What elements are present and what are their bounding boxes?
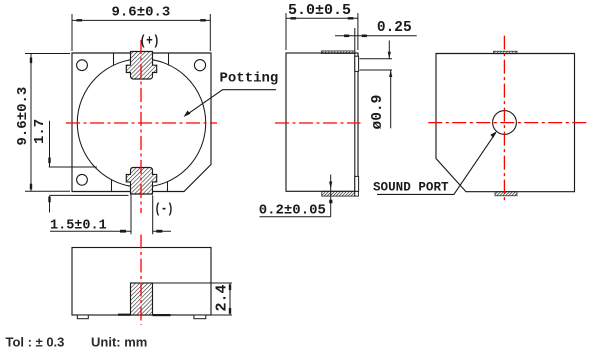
side view: top castellation tab: [355, 56, 359, 71]
bottom view: left terminal edge: [118, 314, 131, 316]
side view: plate line: [354, 53, 356, 191]
dimension 1.5: [50, 195, 171, 235]
rear view: red horizontal centerline: [428, 122, 587, 124]
svg-text:1.5±0.1: 1.5±0.1: [50, 219, 107, 234]
side view: bottom castellation tab: [355, 176, 359, 191]
top view: (-) terminal pad hatched: [126, 168, 156, 195]
svg-text:5.0±0.5: 5.0±0.5: [288, 2, 351, 19]
top view: corner hole bottom-left: [77, 174, 88, 185]
bottom view: outline: [72, 248, 211, 316]
bottom view: terminal pad hatched: [131, 283, 153, 315]
dimension dia 0.9: [360, 41, 393, 129]
top view: edge notch lines: [112, 53, 169, 192]
svg-text:9.6±0.3: 9.6±0.3: [112, 5, 171, 21]
rear view: outline with chamfer: [436, 54, 575, 192]
sound port leader and label: [373, 131, 497, 194]
bottom view: right terminal edge: [153, 314, 171, 316]
svg-text:0.25: 0.25: [377, 20, 412, 36]
svg-text:Tol : ± 0.3: Tol : ± 0.3: [6, 335, 65, 350]
top view: plan outline with chamfered corner: [72, 53, 211, 192]
dimension 9.6 left: [25, 54, 70, 192]
side view: body outline: [286, 53, 358, 191]
side view: top pad strip hatched: [321, 51, 355, 54]
svg-text:(+): (+): [140, 34, 160, 50]
dimension 0.2 leader: [260, 175, 331, 217]
side view: red centerline: [275, 122, 361, 124]
dimension 9.6 top: [72, 14, 210, 51]
svg-text:Unit: mm: Unit: mm: [91, 335, 147, 350]
side view: bottom pad strip hatched: [322, 191, 355, 196]
svg-text:1.7: 1.7: [32, 119, 48, 144]
svg-text:Potting: Potting: [220, 71, 279, 87]
rear view: top pad strip hatched: [494, 51, 518, 54]
top view: corner hole top-left: [77, 60, 88, 71]
top view: red horizontal centerline: [66, 122, 217, 124]
bottom view: red vertical centerline: [140, 235, 142, 325]
potting leader and label: [184, 71, 279, 118]
dimension 5.0 top: [286, 13, 358, 50]
top view: (+) terminal pad hatched: [126, 52, 156, 80]
svg-text:ø0.9: ø0.9: [370, 95, 386, 130]
rear view: bottom pad strip hatched: [495, 192, 517, 196]
top view: red vertical centerline upper: [140, 40, 142, 213]
dimension 2.4: [153, 283, 233, 315]
bottom view: left foot: [77, 315, 88, 319]
dimension 1.7: [49, 121, 129, 213]
svg-text:(-): (-): [155, 202, 174, 218]
dimension 0.25: [335, 28, 417, 53]
rear view: sound port hole: [493, 111, 517, 135]
top view: potting circle: [77, 59, 205, 187]
svg-text:SOUND PORT: SOUND PORT: [373, 181, 449, 195]
top view: corner hole top-right: [194, 60, 205, 71]
bottom view: right foot: [194, 315, 206, 319]
svg-text:0.2±0.05: 0.2±0.05: [259, 203, 326, 219]
rear view: red vertical centerline: [503, 36, 505, 203]
svg-text:9.6±0.3: 9.6±0.3: [15, 87, 31, 146]
svg-text:2.4: 2.4: [214, 284, 231, 311]
